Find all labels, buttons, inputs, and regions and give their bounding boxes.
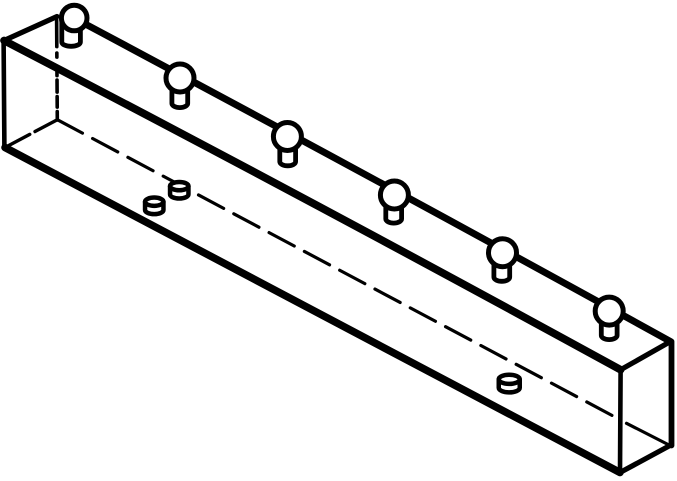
front-right vertical edge [618, 370, 623, 473]
boss B1 (lower cylinder on front face) [145, 198, 163, 215]
boss B2 (upper cylinder on front face) [170, 182, 188, 199]
ball pin 1 (ball) [61, 5, 87, 31]
hidden bottom-back long edge (dashed) [57, 120, 618, 419]
ball pin 4 (ball) [380, 181, 408, 209]
hidden bottom-back edge: last dash inside right end face [627, 423, 671, 445]
ball pin 3 (neck) [280, 141, 296, 166]
ball pin 5 (neck) [494, 257, 510, 282]
front-left vertical edge [1, 41, 6, 148]
back-right vertical edge [669, 342, 675, 446]
ball pin 2 (ball) [166, 64, 194, 92]
right-end top edge [621, 342, 671, 370]
ball pin 6 (ball) [595, 297, 623, 325]
boss B3 (right cylinder on front face) [499, 375, 520, 393]
hidden left-end bottom edge (dashed) [5, 120, 57, 148]
ball pin 5 (ball) [489, 239, 517, 267]
ball pin 1 (neck) [62, 22, 81, 46]
top-front long edge [4, 41, 621, 370]
ball pin 6 (neck) [601, 315, 617, 340]
right-end bottom edge [620, 446, 670, 473]
ball pin 4 (neck) [386, 198, 402, 223]
hidden back-left vertical edge (dashed) [55, 17, 59, 120]
left-end top edge [4, 17, 57, 41]
top-back long edge [74, 18, 671, 342]
ball pin 2 (neck) [172, 82, 188, 108]
bottom-front long edge [5, 148, 620, 473]
ball pin 3 (ball) [273, 123, 301, 151]
